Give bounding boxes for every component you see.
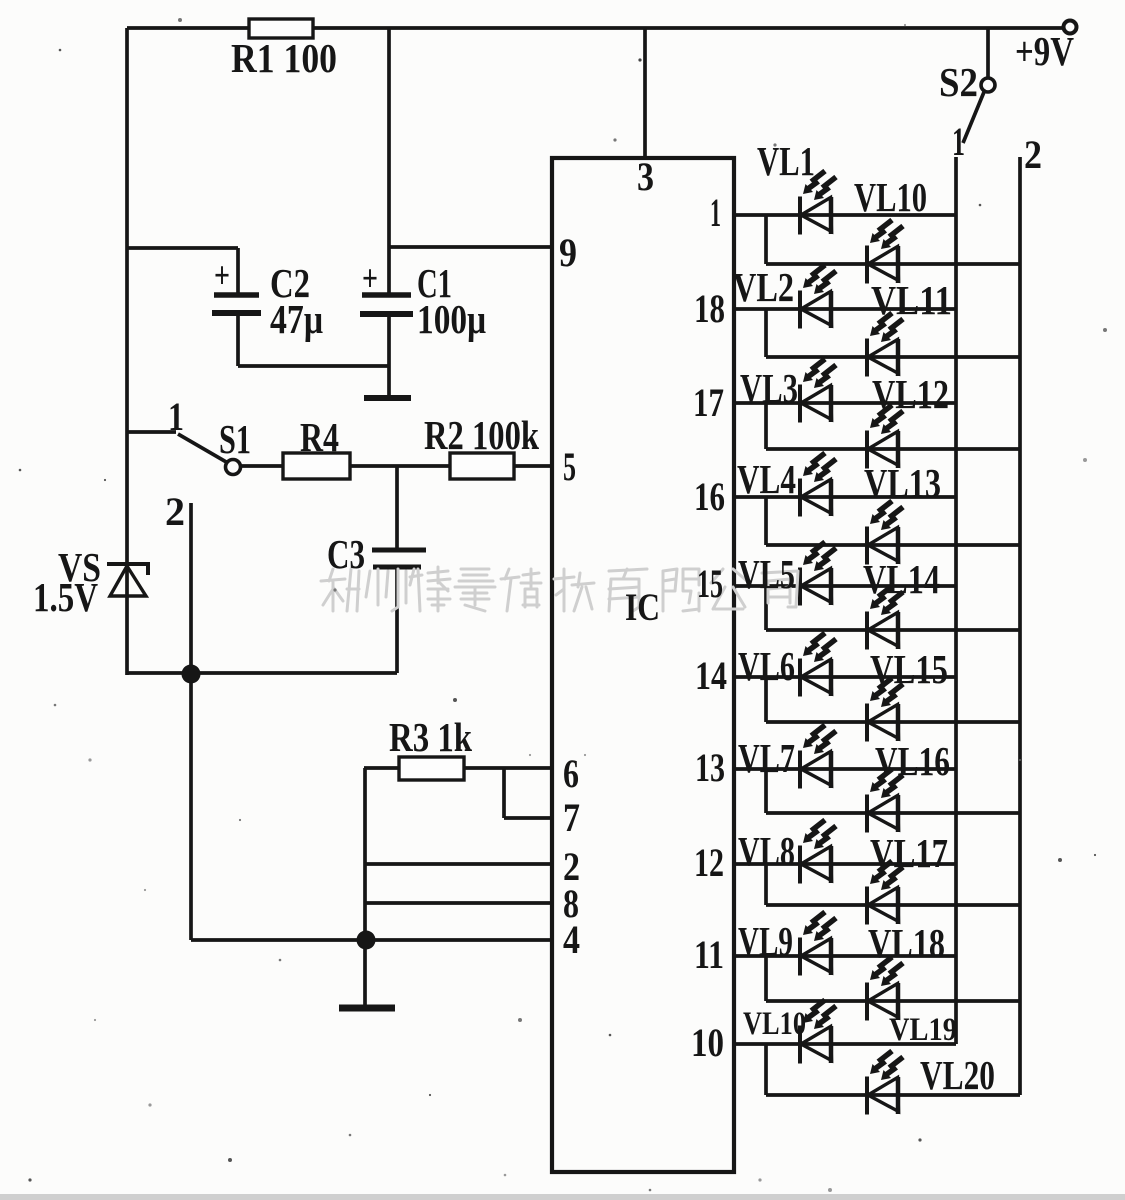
svg-text:VL16: VL16	[875, 738, 950, 784]
svg-text:5: 5	[563, 444, 576, 489]
svg-text:4: 4	[563, 917, 580, 962]
svg-text:VL7: VL7	[738, 735, 795, 781]
svg-text:10: 10	[691, 1020, 724, 1065]
svg-text:VL5: VL5	[738, 551, 795, 597]
svg-text:IC: IC	[625, 586, 660, 629]
svg-text:VL3: VL3	[740, 365, 798, 411]
svg-text:VL18: VL18	[868, 920, 945, 966]
svg-text:VL1: VL1	[757, 138, 815, 184]
svg-text:1: 1	[710, 190, 721, 235]
svg-text:R1 100: R1 100	[231, 35, 337, 81]
svg-text:C3: C3	[327, 531, 365, 577]
svg-text:11: 11	[694, 932, 724, 977]
svg-text:VL15: VL15	[870, 646, 948, 692]
svg-text:100μ: 100μ	[417, 296, 486, 342]
svg-text:VL13: VL13	[864, 460, 941, 506]
svg-text:VL20: VL20	[920, 1052, 995, 1098]
svg-text:VL6: VL6	[738, 643, 795, 689]
svg-text:47μ: 47μ	[270, 296, 323, 342]
svg-text:1.5V: 1.5V	[33, 574, 98, 620]
svg-text:12: 12	[694, 840, 724, 885]
svg-text:14: 14	[695, 653, 727, 698]
svg-text:R4: R4	[300, 414, 339, 460]
svg-text:1: 1	[168, 394, 184, 439]
svg-text:VL10: VL10	[854, 174, 927, 220]
svg-text:9: 9	[559, 230, 577, 275]
svg-text:S2: S2	[939, 59, 978, 105]
svg-text:1: 1	[952, 119, 965, 164]
svg-text:13: 13	[695, 745, 725, 790]
svg-text:6: 6	[563, 751, 579, 796]
svg-text:R3 1k: R3 1k	[389, 714, 472, 760]
svg-text:VL19: VL19	[889, 1012, 957, 1048]
svg-text:VL2: VL2	[733, 264, 794, 310]
svg-text:2: 2	[1024, 132, 1042, 177]
svg-text:18: 18	[694, 286, 725, 331]
svg-text:+: +	[214, 255, 230, 297]
svg-text:+9V: +9V	[1015, 28, 1074, 74]
svg-text:7: 7	[563, 795, 580, 840]
svg-text:VL4: VL4	[737, 456, 796, 502]
svg-text:VL10: VL10	[743, 1006, 806, 1042]
svg-text:VL12: VL12	[872, 371, 949, 417]
svg-text:VL17: VL17	[870, 830, 948, 876]
svg-text:15: 15	[697, 561, 723, 606]
svg-text:3: 3	[637, 154, 654, 199]
svg-text:+: +	[362, 258, 378, 300]
svg-text:S1: S1	[219, 416, 251, 462]
svg-text:VL11: VL11	[871, 277, 952, 323]
svg-text:R2 100k: R2 100k	[424, 412, 539, 458]
svg-text:VL8: VL8	[738, 828, 795, 874]
svg-text:16: 16	[694, 474, 725, 519]
svg-text:VL9: VL9	[738, 918, 793, 964]
svg-text:2: 2	[165, 489, 185, 534]
svg-text:17: 17	[693, 380, 724, 425]
svg-text:VL14: VL14	[863, 556, 940, 602]
